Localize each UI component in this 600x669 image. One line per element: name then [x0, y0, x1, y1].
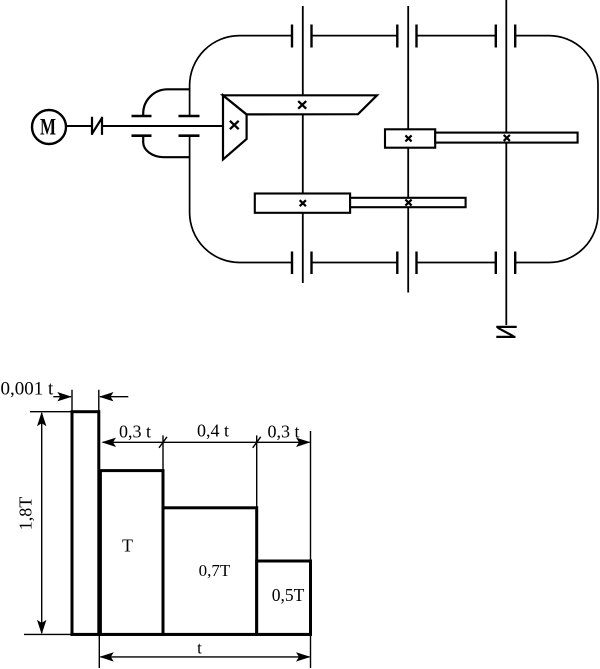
bottom dimension t: [101, 656, 310, 658]
bearing ticks, housing left wall: [179, 116, 200, 136]
bar 1 (1,8T peak): [72, 412, 99, 635]
bearing ticks, bell wall: [132, 116, 152, 136]
bar 3 (0,7T): [163, 508, 257, 635]
extension lines below baseline: [99, 560, 310, 668]
x mark pinion shaft III: [405, 135, 411, 141]
bar 2 (T): [100, 471, 163, 635]
extension lines above bar 1: [72, 390, 99, 412]
bevel pinion on shaft I: [223, 95, 247, 159]
dimension 1,8T vertical line with arrows: [41, 413, 43, 633]
svg-text:0,4 t: 0,4 t: [197, 421, 229, 441]
bar 4 (0,5T): [257, 561, 311, 634]
oblique tick at 0,3t/0,4t division: [159, 437, 167, 448]
shaft break symbol: [92, 117, 103, 135]
baseline: [24, 633, 312, 635]
bevel wheel on shaft II: [223, 95, 377, 114]
dimension 0,001t arrows: [53, 396, 128, 398]
svg-text:M: M: [40, 115, 56, 141]
extension line above bar 2 right edge: [162, 435, 164, 470]
x mark wheel shaft III: [405, 200, 411, 206]
x mark bevel wheel: [298, 101, 306, 109]
coupling bell housing: [143, 89, 190, 157]
motor M: [32, 110, 66, 144]
svg-text:T: T: [122, 536, 133, 556]
input shaft I (motor to coupling): [67, 125, 223, 127]
x mark pinion shaft II: [300, 200, 306, 206]
spur pinion on shaft II (second cylindrical pair): [255, 194, 350, 213]
svg-text:0,7T: 0,7T: [199, 561, 231, 580]
x mark bevel pinion: [230, 121, 239, 129]
svg-text:1,8T: 1,8T: [16, 497, 36, 531]
svg-text:0,3 t: 0,3 t: [267, 422, 299, 442]
svg-text:t: t: [197, 639, 202, 658]
x mark wheel shaft IV: [504, 135, 510, 141]
svg-text:0,001 t: 0,001 t: [1, 379, 55, 400]
shaft II: [302, 6, 304, 283]
extension line right edge (bar 4): [310, 431, 312, 561]
bearing ticks, housing bottom edge (shafts II, III, IV): [292, 252, 515, 275]
spur wheel on shaft IV (first cylindrical pair): [435, 133, 577, 143]
svg-text:0,3 t: 0,3 t: [119, 422, 151, 442]
gearbox housing: [190, 36, 598, 263]
svg-text:0,5T: 0,5T: [272, 585, 305, 605]
spur wheel on shaft III (second cylindrical pair): [350, 198, 466, 207]
bearing ticks, housing top edge (shafts II, III, IV): [292, 25, 515, 48]
oblique tick at 0,4t/0,3t division: [253, 437, 261, 448]
extension line above bar 3 right edge: [256, 435, 258, 507]
extension line top of bar 1: [30, 411, 72, 413]
shaft III: [407, 6, 409, 293]
spur pinion on shaft III (first cylindrical pair): [385, 129, 435, 147]
step dimension line (0,3t / 0,4t / 0,3t): [103, 441, 310, 443]
shaft IV: [505, 0, 507, 325]
shaft IV break symbol: [496, 327, 516, 337]
